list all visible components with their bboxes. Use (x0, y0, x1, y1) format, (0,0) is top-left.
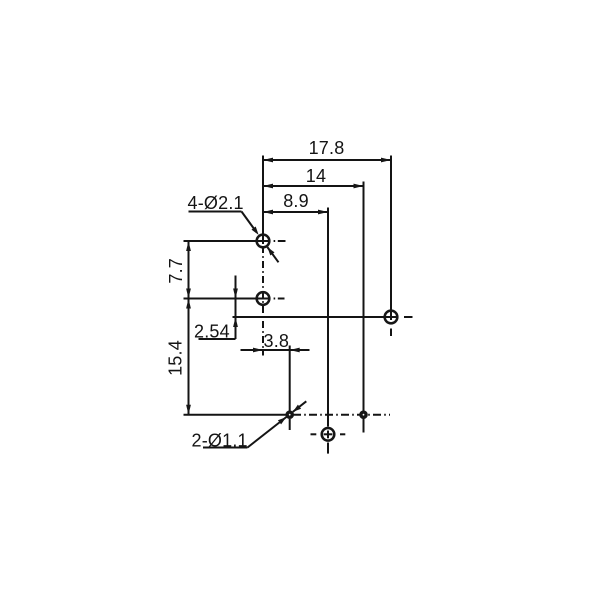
arrow 3.8 right (290, 348, 300, 353)
svg-text:2-Ø1.1: 2-Ø1.1 (192, 431, 248, 451)
dimension line 14 (263, 185, 364, 187)
hole S1 (287, 412, 292, 417)
arrow 2.54 lower (233, 317, 238, 327)
svg-text:4-Ø2.1: 4-Ø2.1 (188, 193, 244, 213)
centerline below hole S1 (289, 419, 291, 430)
arrow 7.7 top (186, 241, 191, 251)
extension line x=391 (390, 156, 392, 321)
leader arrow H1 upper (252, 227, 259, 235)
leader tail through H1 (267, 247, 278, 262)
centerline H2 right dot (274, 298, 276, 300)
leader tail through S1 (293, 401, 307, 412)
centerline H3 right dash (404, 316, 413, 318)
left dimension line vertical 7.7 and 15.4 (188, 241, 190, 415)
centerline vertical through holes H1 H2 (262, 246, 264, 356)
leader arrow S1 lower (278, 417, 286, 424)
dimension line 17.8 (263, 159, 391, 161)
centerline H4 horizontal right (340, 433, 345, 435)
arrow 8.9 left (263, 210, 273, 215)
leader arrow H1 lower (267, 247, 274, 255)
bottom object line y=414.7 (184, 414, 287, 416)
extension line x=363.5 (363, 182, 365, 415)
centerline inner dash hole H4 (327, 431, 329, 439)
svg-text:2.54: 2.54 (194, 322, 230, 342)
centerline below hole H3 (390, 329, 392, 337)
dimension line 3.8 (241, 349, 310, 351)
svg-text:14: 14 (306, 166, 326, 186)
arrow 17.8 left (263, 158, 273, 163)
arrow 8.9 right (318, 210, 328, 215)
hole H3 (385, 311, 398, 324)
object line hole H2 row (184, 298, 271, 300)
object line hole H3 row (233, 316, 398, 318)
svg-text:15.4: 15.4 (166, 340, 186, 376)
extension line x=328 (327, 208, 329, 427)
hole S2 (361, 412, 366, 417)
arrow 2.54 upper (233, 289, 238, 299)
centerline below hole H4 (327, 443, 329, 454)
arrow 17.8 right (381, 158, 391, 163)
object line hole H1 row (184, 240, 271, 242)
leader diagonal to S1 (248, 417, 288, 448)
hole H4 (322, 428, 335, 441)
centerline H1 right dash (278, 240, 286, 242)
leader arrow S1 upper (293, 405, 301, 412)
leader shelf 4-02.1 (189, 211, 242, 213)
shelf 2.54 (199, 338, 236, 340)
svg-text:7.7: 7.7 (166, 258, 186, 284)
centerline H1 right dot (274, 240, 276, 242)
bottom centerline through S1 S2 (293, 414, 390, 416)
centerline H4 horizontal middle (324, 433, 333, 435)
svg-text:17.8: 17.8 (309, 138, 345, 158)
arrow 15.4 bottom (186, 405, 191, 415)
leader shelf 2-01.1 (203, 447, 248, 449)
centerline H2 right dash (278, 298, 285, 300)
svg-text:8.9: 8.9 (283, 191, 309, 211)
arrow 7.7 bottom (186, 289, 191, 299)
arrow 3.8 left (253, 348, 263, 353)
arrow 15.4 top (186, 299, 191, 309)
centerline below hole S2 (363, 419, 365, 433)
centerline H4 horizontal left (311, 433, 317, 435)
svg-text:3.8: 3.8 (264, 331, 290, 351)
arrow 14 right (354, 184, 364, 189)
hole H2 (257, 292, 270, 305)
extension line x=263 top (262, 156, 264, 245)
extension line x=289.7 (289, 346, 291, 415)
dimension line 2.54 vertical (235, 276, 237, 340)
hole H1 (257, 235, 270, 248)
arrow 14 left (263, 184, 273, 189)
dimension line 8.9 (263, 211, 328, 213)
leader diagonal to H1 (242, 212, 257, 233)
